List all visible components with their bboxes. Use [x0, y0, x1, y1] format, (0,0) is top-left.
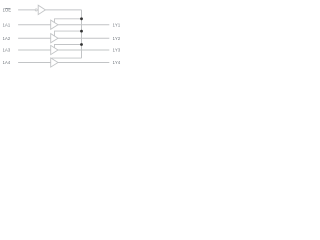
wire OE input	[18, 9, 35, 11]
svg-text:1A2: 1A2	[3, 36, 11, 41]
wire output Y2	[58, 37, 109, 39]
svg-text:1A4: 1A4	[3, 60, 11, 65]
wire output Y3	[58, 49, 109, 51]
wire enable tap 2	[55, 31, 82, 36]
wire enable tap 3	[55, 45, 82, 48]
buffer U4 (three-state buffer 3)	[51, 45, 58, 54]
wire enable bus vertical	[81, 10, 83, 58]
buffer U3 (three-state buffer 2)	[51, 34, 58, 43]
wire input A4	[18, 62, 51, 64]
wire OE output to bus	[45, 9, 81, 11]
op-amp U1 (OE inverter triangle)	[38, 5, 45, 14]
inverter bubble	[35, 9, 37, 11]
svg-text:1A1: 1A1	[3, 22, 11, 27]
svg-text:1Y4: 1Y4	[113, 60, 121, 65]
wire input A3	[18, 49, 51, 51]
wire output Y1	[58, 24, 109, 26]
wire enable tap 1	[55, 19, 82, 23]
svg-text:1A3: 1A3	[3, 48, 11, 53]
wire input A2	[18, 37, 51, 39]
svg-text:1Y2: 1Y2	[113, 36, 121, 41]
svg-text:1Y1: 1Y1	[113, 22, 121, 27]
buffer U2 (three-state buffer 1)	[51, 20, 58, 29]
node junction dot 1	[80, 17, 83, 20]
buffer U5 (three-state buffer 4)	[51, 58, 58, 67]
node junction dot 3	[80, 43, 83, 46]
svg-text:1Y3: 1Y3	[113, 48, 121, 53]
node junction dot 2	[80, 30, 83, 33]
wire enable tap 4	[52, 57, 82, 59]
wire output Y4	[58, 62, 109, 64]
wire input A1	[18, 24, 51, 26]
node 1OE label	[3, 8, 12, 13]
